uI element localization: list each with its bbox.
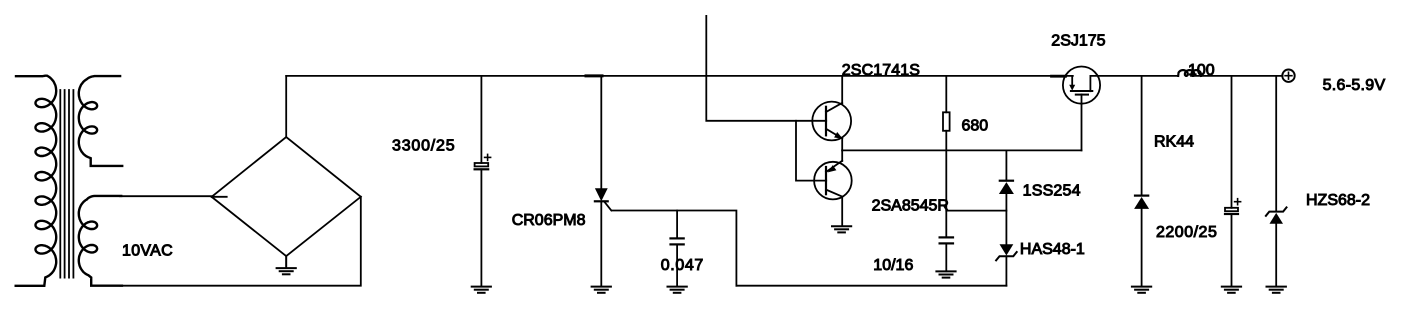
- transformer secondary top winding: [79, 76, 122, 166]
- wire SCR gate run: [612, 211, 737, 286]
- transistor Q2 2SA8545R: [814, 162, 852, 200]
- ground C4: [1222, 287, 1241, 293]
- wire Q2 collector to ground: [841, 196, 843, 226]
- ground Q2: [832, 226, 851, 232]
- wire C3 to ground: [945, 243, 947, 271]
- diode D4 RK44: [1135, 195, 1148, 197]
- capacitor C2 0.047: [671, 237, 684, 239]
- wire D3 to bottom rail: [1005, 256, 1007, 286]
- wire bottom rail secondary to bridge AC2: [121, 197, 361, 286]
- inductor L1 100: [1178, 70, 1201, 76]
- svg-text:10VAC: 10VAC: [122, 242, 173, 259]
- wire gate to C2: [676, 211, 678, 239]
- wire control input from top: [706, 16, 826, 121]
- svg-text:2SA8545R: 2SA8545R: [872, 198, 949, 215]
- wire Q1 emitter down: [841, 138, 843, 150]
- svg-text:2200/25: 2200/25: [1156, 224, 1217, 241]
- wire D4 to ground: [1141, 209, 1143, 286]
- ground C3: [936, 271, 955, 277]
- ground C2: [668, 287, 687, 293]
- wire C4 to ground: [1231, 214, 1233, 286]
- wire C1 to ground: [480, 169, 482, 286]
- transistor Q1 2SC1741S: [812, 102, 851, 141]
- svg-text:1SS254: 1SS254: [1023, 182, 1081, 199]
- transformer primary winding: [16, 76, 57, 286]
- ground D5: [1267, 287, 1286, 293]
- capacitor C3 10/16: [940, 236, 953, 238]
- wire top rail left: [286, 75, 1073, 77]
- wire rail to C1: [480, 76, 482, 163]
- zener D5 HZS68-2: [1266, 207, 1287, 215]
- wire node to D2: [1005, 150, 1007, 180]
- wire base tie Q1-Q2: [796, 121, 826, 181]
- transformer secondary bottom winding: [79, 196, 122, 286]
- wire bridge + output up to rail: [285, 256, 287, 266]
- mosfet U1 2SJ175: [1063, 67, 1100, 104]
- svg-text:3300/25: 3300/25: [392, 137, 455, 154]
- svg-text:0.047: 0.047: [661, 257, 704, 274]
- wire Q2 emitter up: [841, 150, 843, 161]
- capacitor C1 3300/25: [475, 163, 489, 166]
- ground C1: [472, 287, 491, 293]
- diode D2 1SS254: [1000, 180, 1013, 182]
- svg-text:10/16: 10/16: [873, 257, 913, 274]
- wire rail to D4: [1141, 76, 1143, 196]
- wire SCR cathode to ground: [600, 201, 602, 286]
- wire Q1 collector to rail: [841, 76, 843, 103]
- svg-text:5.6-5.9V: 5.6-5.9V: [1323, 77, 1386, 94]
- svg-text:2SJ175: 2SJ175: [1051, 33, 1105, 50]
- wire D5 to ground: [1275, 224, 1277, 287]
- ground D4: [1132, 287, 1151, 293]
- bridge rectifier D1: [212, 137, 361, 256]
- wire rail to terminal: [1191, 75, 1283, 77]
- svg-text:CR06PM8: CR06PM8: [512, 212, 586, 229]
- wire rail right: [1090, 75, 1177, 77]
- svg-text:2SC1741S: 2SC1741S: [842, 62, 920, 79]
- svg-text:RK44: RK44: [1154, 133, 1194, 150]
- thyristor CR06PM8: [595, 188, 608, 201]
- wire rail overlap artifact 2: [1052, 75, 1066, 78]
- wire C2 to ground: [676, 244, 678, 286]
- wire R1 to C3: [945, 131, 947, 238]
- wire rail to SCR anode: [600, 76, 602, 189]
- wire node emitters to gate: [842, 149, 1081, 151]
- wire rail overlap artifact 1: [586, 74, 602, 77]
- wire D2 to D3: [1005, 194, 1007, 244]
- diode D3 HAS48-1: [1000, 244, 1014, 255]
- wire rail to D5: [1275, 76, 1277, 212]
- output terminal +: [1282, 70, 1294, 82]
- svg-text:680: 680: [962, 118, 989, 135]
- SCR gate lead: [605, 202, 612, 210]
- ground bridge: [285, 256, 287, 268]
- wire mosfet gate: [1081, 94, 1083, 150]
- ground SCR: [592, 287, 611, 293]
- wire junction R1C3 to diodes: [946, 210, 1006, 212]
- svg-text:HZS68-2: HZS68-2: [1306, 192, 1370, 209]
- wire bottom rail right: [736, 285, 1006, 287]
- transformer core: [60, 90, 73, 278]
- wire rail to R1: [945, 76, 947, 112]
- resistor R1 680: [943, 112, 950, 131]
- wire rail to C4: [1231, 76, 1233, 208]
- svg-text:HAS48-1: HAS48-1: [1020, 241, 1085, 258]
- capacitor C4 2200/25: [1225, 208, 1238, 211]
- wire secondary to bridge AC1: [120, 195, 212, 197]
